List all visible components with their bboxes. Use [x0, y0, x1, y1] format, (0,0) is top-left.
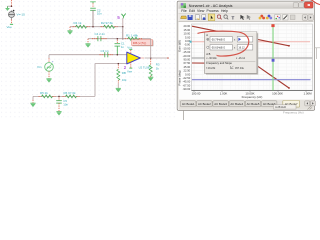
resistor R5	[39, 95, 56, 98]
frame behind right	[315, 48, 320, 59]
wire mid vertical	[122, 27, 124, 39]
icon paste page	[202, 15, 206, 20]
svg-text:f 29.23k: f 29.23k	[206, 67, 216, 70]
svg-text:67.50: 67.50	[183, 61, 190, 65]
resize grip	[307, 105, 311, 109]
nav buttons	[302, 15, 313, 20]
app icon	[181, 3, 186, 8]
row2 radio	[207, 46, 209, 48]
svg-text:Gain (dB): Gain (dB)	[178, 40, 182, 52]
svg-text:Noname1.cir - AC Analysis: Noname1.cir - AC Analysis	[189, 4, 233, 8]
ground	[85, 44, 90, 48]
svg-text:Frequency (Hz): Frequency (Hz)	[242, 95, 263, 99]
icon pen	[283, 15, 288, 20]
node junction	[92, 26, 94, 28]
svg-text:-5.00: -5.00	[184, 43, 191, 47]
Vee pin	[127, 62, 133, 73]
wire left leg x=95	[94, 64, 96, 97]
resistor R4	[73, 25, 90, 28]
svg-text:RB: RB	[122, 71, 126, 75]
cursor hline pink	[192, 41, 311, 43]
svg-text:R1 1.48k: R1 1.48k	[126, 33, 139, 37]
close button	[304, 2, 313, 8]
below window: frame of schematic window behind	[183, 111, 185, 120]
svg-text:100.00K: 100.00K	[272, 91, 283, 95]
x labels	[192, 91, 313, 95]
ground	[46, 79, 51, 83]
svg-text:x -16.12: x -16.12	[236, 57, 246, 60]
svg-text:x -30.94k: x -30.94k	[206, 57, 217, 60]
node junction	[118, 63, 120, 65]
svg-text:20.00: 20.00	[183, 24, 190, 28]
window frame	[177, 1, 314, 110]
svg-text:-20.00: -20.00	[183, 54, 191, 58]
group frequency and slope	[206, 61, 255, 63]
wire	[92, 10, 94, 26]
node junction	[117, 54, 119, 56]
svg-text:T: T	[232, 15, 235, 20]
svg-text:R5 2k: R5 2k	[40, 91, 48, 95]
wire output	[145, 57, 168, 59]
capacitor C1 vertical	[115, 40, 121, 55]
tab buttons	[181, 101, 300, 108]
wire corner down	[69, 27, 71, 31]
svg-text:457.04u: 457.04u	[235, 67, 245, 70]
row1 field2	[237, 37, 253, 42]
annotation oval red	[198, 31, 249, 56]
pane gridlines minor vertical	[202, 24, 304, 91]
svg-text:1k: 1k	[156, 67, 160, 71]
ground	[56, 112, 61, 116]
svg-text:-50.634dB G: -50.634dB G	[211, 47, 225, 50]
node junction	[11, 5, 13, 7]
toolbar	[178, 14, 313, 22]
svg-text:15.00: 15.00	[183, 28, 190, 32]
dialog shadow	[206, 33, 258, 74]
svg-text:R6 97.6k: R6 97.6k	[64, 91, 77, 95]
icon save	[188, 15, 193, 20]
output lead	[140, 57, 144, 59]
svg-text:DB(v(5)): DB(v(5))	[133, 41, 147, 45]
icon flower blue	[266, 15, 272, 20]
svg-text:10n: 10n	[63, 103, 68, 107]
wire corner down	[32, 96, 34, 99]
icon copy page	[195, 15, 199, 20]
pane separator	[192, 57, 313, 59]
svg-text:10k: 10k	[122, 78, 127, 82]
ground	[67, 31, 72, 35]
wire battery bottom	[11, 18, 13, 20]
curve gain red	[192, 26, 289, 46]
min button	[293, 3, 298, 8]
bottom axis	[192, 90, 313, 92]
resistor R3 load vertical	[149, 59, 152, 77]
icon zoom in	[217, 15, 220, 18]
svg-text:AC Bode4: AC Bode4	[230, 102, 243, 106]
svg-text:R4 1k: R4 1k	[74, 21, 82, 25]
y labels pane 1	[183, 24, 191, 58]
svg-text:Phase (deg): Phase (deg)	[178, 70, 182, 85]
node junction	[117, 38, 119, 40]
max button	[299, 3, 304, 8]
plot client area	[179, 22, 314, 100]
svg-text:10n: 10n	[97, 12, 102, 16]
svg-text:AC Bode1: AC Bode1	[182, 102, 195, 106]
pane 2 border	[192, 58, 313, 90]
node junction	[122, 38, 124, 40]
node Vee tick	[10, 24, 13, 25]
svg-text:10.00: 10.00	[183, 32, 190, 36]
svg-text:16.12: 16.12	[238, 47, 245, 50]
wire corner down	[87, 39, 89, 44]
svg-text:Frequency (Hz): Frequency (Hz)	[283, 110, 304, 114]
pane gridlines major vertical	[194, 24, 306, 91]
svg-text:1n: 1n	[121, 45, 125, 49]
wire ground stub	[8, 5, 12, 7]
wire node5 down	[122, 18, 124, 27]
icon grey	[290, 15, 295, 20]
wire input to opamp y=54.7	[49, 54, 127, 56]
Vcc pin	[127, 46, 133, 54]
resistor R1	[125, 37, 142, 40]
cursor hline marker	[190, 41, 192, 43]
icon arrow1	[240, 15, 244, 20]
svg-text:+: +	[52, 60, 54, 64]
icon scatter	[275, 15, 280, 20]
svg-text:-10.00: -10.00	[183, 47, 191, 51]
svg-text:90.00: 90.00	[183, 58, 190, 62]
capacitor C3	[100, 52, 114, 57]
curve phase red	[192, 63, 289, 88]
resistor R6	[63, 95, 80, 98]
ground	[30, 103, 35, 107]
title bar	[178, 2, 313, 9]
svg-text:AC Bode3: AC Bode3	[214, 102, 227, 106]
battery V2	[9, 10, 15, 18]
svg-text:1.00M: 1.00M	[303, 91, 312, 95]
svg-text:Vee: Vee	[127, 70, 133, 74]
pane 1 border	[192, 24, 313, 58]
row2 field2	[237, 45, 253, 50]
node junction	[122, 26, 124, 28]
svg-text:-22.50: -22.50	[183, 76, 191, 80]
svg-text:-45.00: -45.00	[183, 80, 191, 84]
y labels pane 2	[183, 58, 191, 92]
node 5 marker	[117, 14, 126, 21]
svg-text:-50.794dB G: -50.794dB G	[211, 39, 225, 42]
node junction	[150, 57, 152, 59]
wire input row y=26.7	[70, 26, 123, 28]
wire	[11, 20, 13, 24]
svg-text:V=-15: V=-15	[17, 13, 26, 17]
svg-text:5: 5	[117, 15, 120, 20]
svg-text:45.00: 45.00	[183, 65, 190, 69]
capacitor C2 top	[90, 2, 96, 11]
scroll arrow buttons	[305, 101, 310, 106]
wire top supply	[11, 0, 13, 6]
svg-text:0.00: 0.00	[185, 72, 191, 76]
ground	[116, 88, 121, 92]
svg-text:Vee: Vee	[7, 25, 13, 29]
icon arrow2	[247, 15, 251, 20]
red tag box	[132, 40, 154, 47]
svg-text:Frequency and Slope: Frequency and Slope	[206, 61, 232, 65]
svg-text:-67.50: -67.50	[183, 83, 191, 87]
pane gridlines horizontal	[192, 26, 313, 89]
dialog panel	[205, 32, 257, 74]
svg-text:A B: A B	[206, 52, 210, 56]
svg-text:AC Bode5: AC Bode5	[247, 102, 260, 106]
menu bar	[178, 9, 313, 13]
svg-text:Vin: Vin	[37, 65, 42, 69]
svg-text:1.00K: 1.00K	[220, 91, 228, 95]
svg-text:R2 97.6k: R2 97.6k	[101, 21, 114, 25]
resistor R2	[101, 25, 118, 28]
wire feedback row y=38.7	[88, 38, 151, 40]
svg-text:5.00: 5.00	[185, 35, 191, 39]
svg-text:4.28 kHz: 4.28 kHz	[275, 105, 287, 109]
wire bottom row y=96.4	[33, 95, 95, 97]
capacitor C5 vertical	[56, 97, 62, 111]
status field	[274, 105, 297, 109]
svg-text:-15.00: -15.00	[183, 50, 191, 54]
icon flower red	[259, 15, 265, 20]
cursor vline green	[272, 24, 274, 90]
node end	[167, 57, 169, 59]
row1 field	[210, 37, 232, 42]
svg-text:AC Bode2: AC Bode2	[198, 102, 211, 106]
cursor handle blue	[272, 59, 275, 62]
icon zoom out	[224, 15, 227, 18]
svg-text:22.50: 22.50	[183, 69, 190, 73]
row1 radio	[207, 38, 209, 40]
node junction	[58, 96, 60, 98]
source Vin	[45, 55, 54, 79]
svg-text:A: A	[206, 33, 208, 37]
schematic sheet background	[0, 0, 320, 120]
cursor handle red	[271, 24, 274, 27]
icon open folder	[181, 16, 187, 19]
ground	[5, 6, 10, 11]
svg-text:-90.00: -90.00	[183, 87, 191, 91]
svg-text:C4 2.2n: C4 2.2n	[95, 32, 106, 36]
capacitor C4	[92, 36, 107, 41]
ground	[148, 77, 153, 81]
svg-text:C3 1n: C3 1n	[101, 49, 109, 53]
svg-text:100.00: 100.00	[192, 91, 201, 95]
annotation arrow to close	[301, 0, 320, 5]
wire noninv y=63.6	[95, 63, 127, 65]
op-amp U2	[127, 52, 141, 64]
resistor RB vertical	[117, 65, 120, 89]
icon select mode active	[208, 14, 215, 21]
curve blue flat	[192, 79, 311, 81]
wire feedback vertical	[150, 39, 152, 58]
row2 field	[210, 45, 232, 50]
